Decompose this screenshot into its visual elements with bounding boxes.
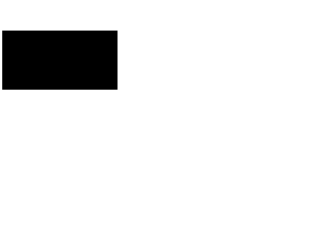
video player (black letterboxed embed) [2,31,117,90]
